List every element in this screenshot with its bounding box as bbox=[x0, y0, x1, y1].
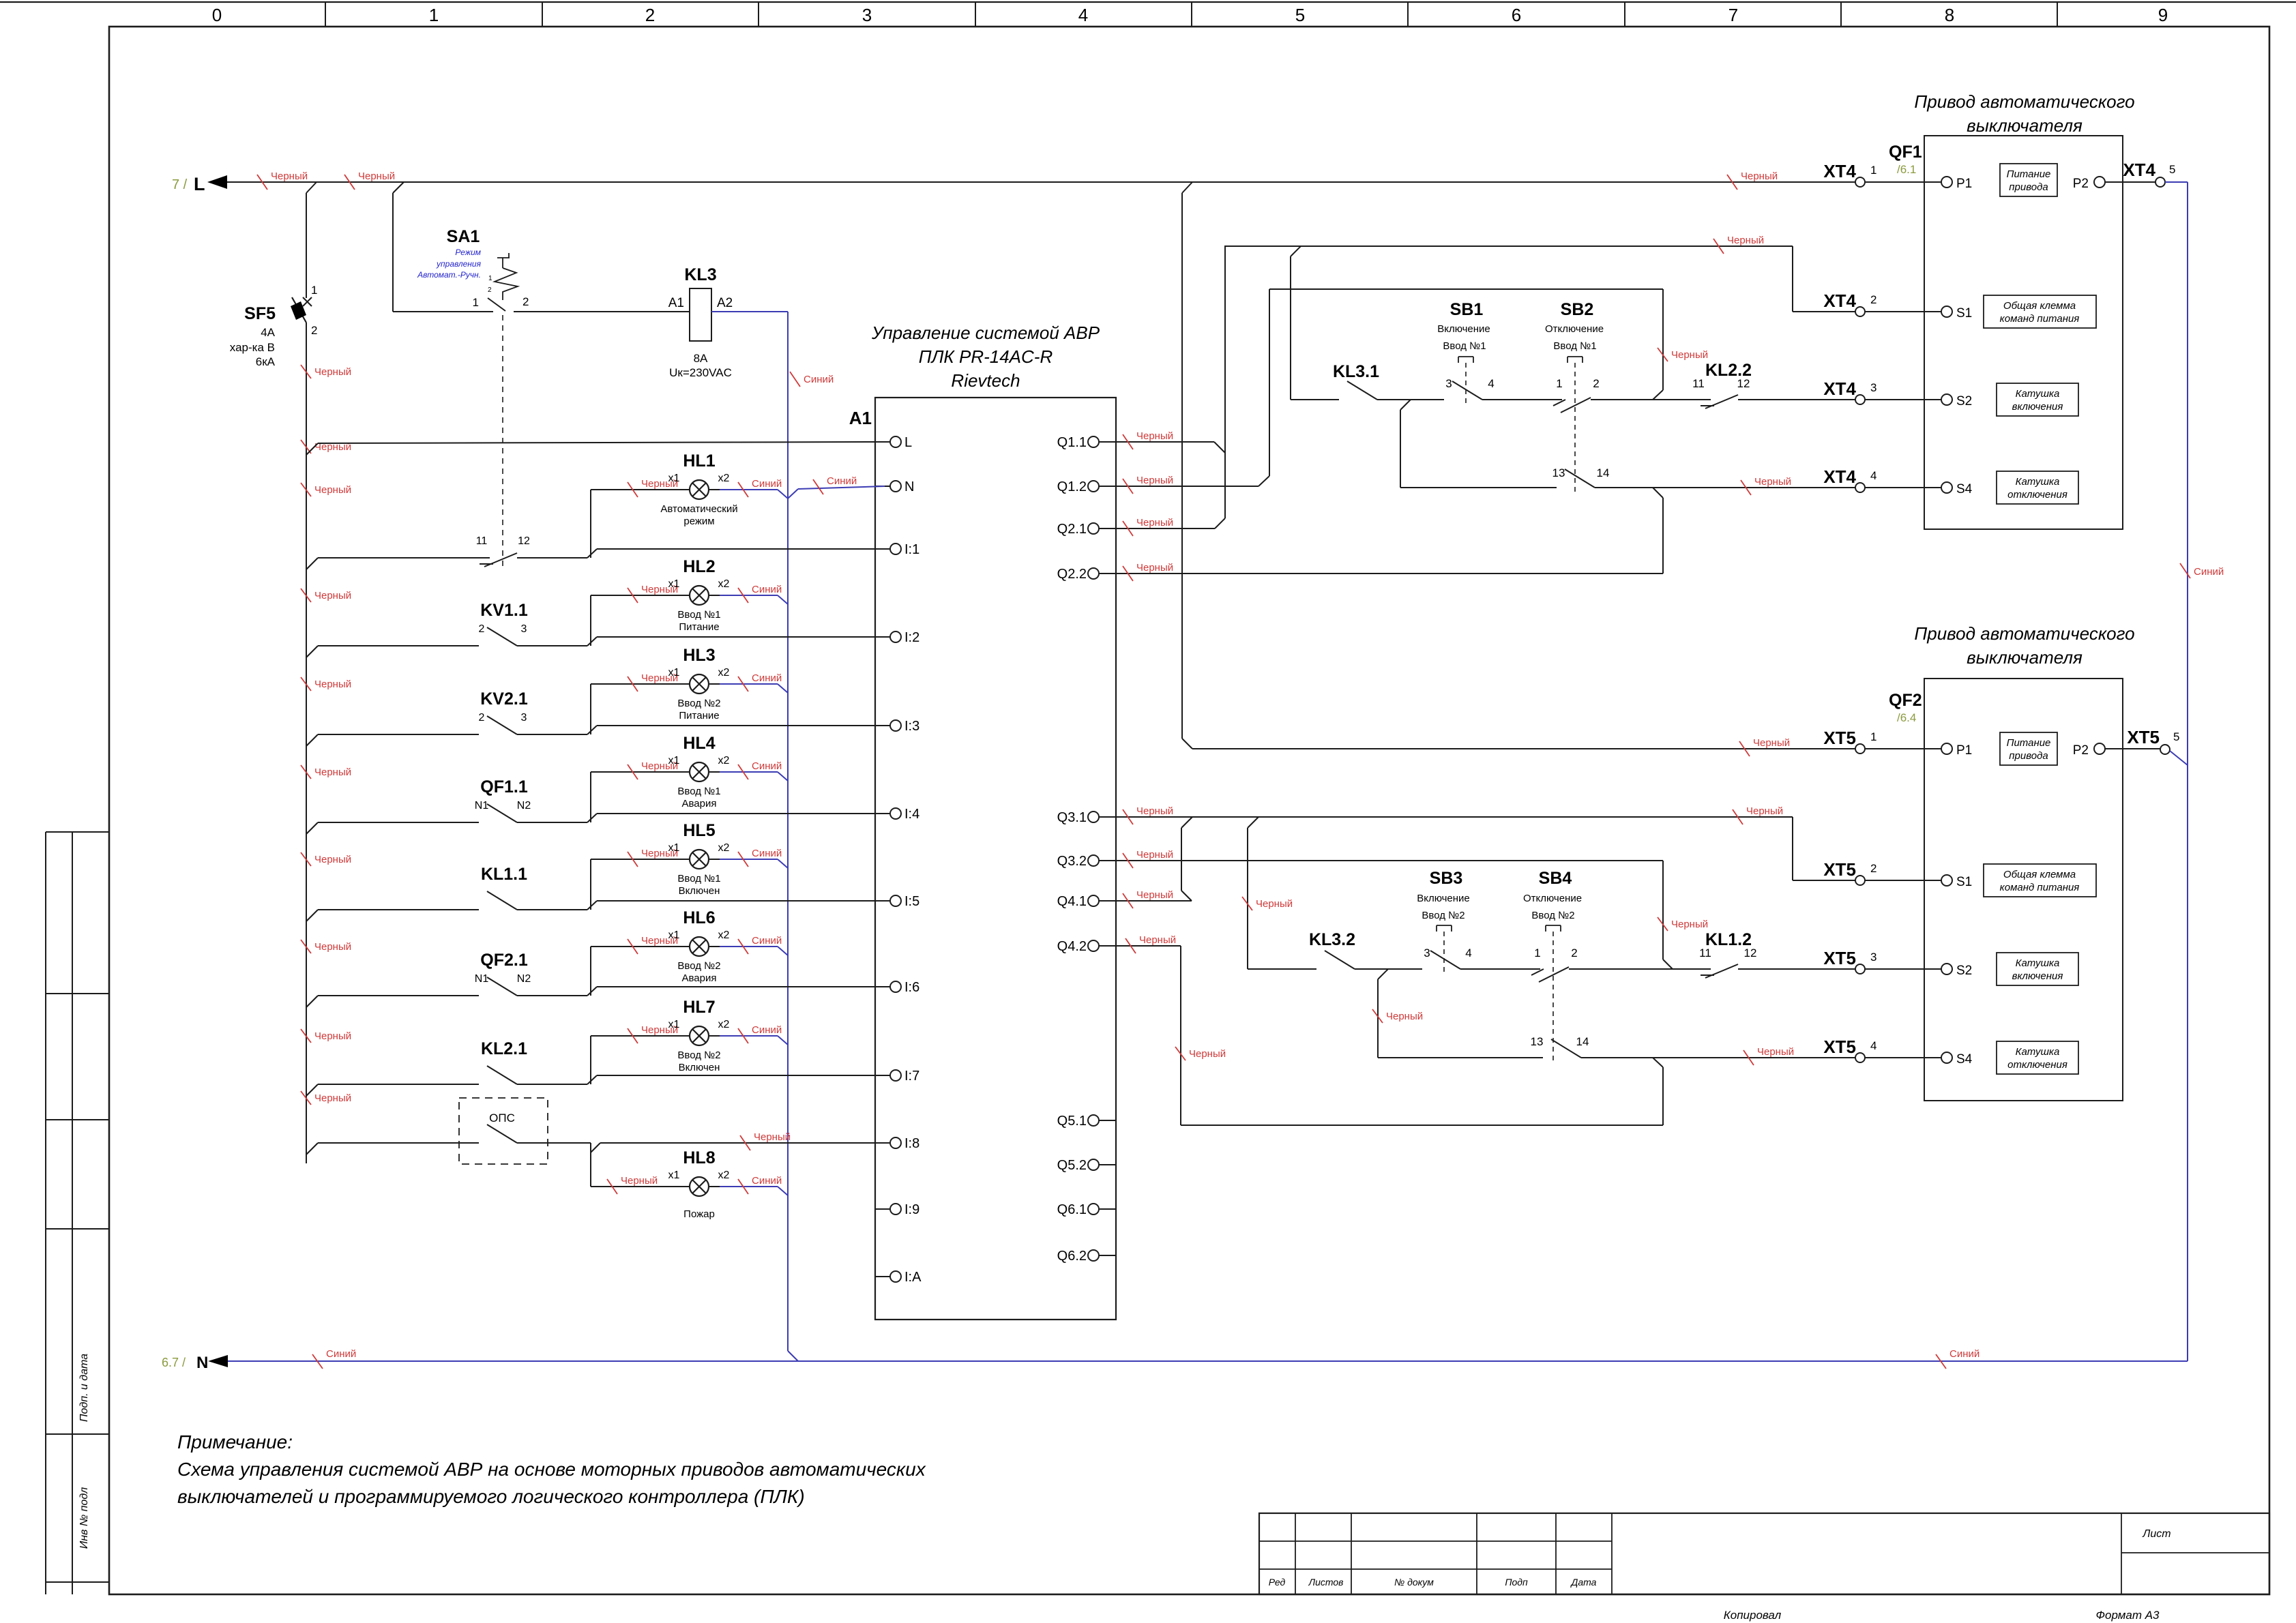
svg-text:Черный: Черный bbox=[1136, 889, 1173, 901]
wire label bbox=[628, 852, 638, 867]
wire KL3 A2 to N riser (blue) bbox=[711, 311, 788, 312]
svg-text:Синий: Синий bbox=[804, 374, 834, 385]
wire row 8 left segment bbox=[318, 1142, 479, 1144]
svg-text:Q3.1: Q3.1 bbox=[1057, 810, 1087, 825]
svg-text:HL1: HL1 bbox=[683, 451, 715, 471]
wire label bbox=[628, 939, 638, 954]
pin I:1 bbox=[875, 548, 890, 550]
svg-text:Черный: Черный bbox=[1189, 1048, 1226, 1060]
svg-text:KV1.1: KV1.1 bbox=[480, 601, 528, 620]
svg-text:S2: S2 bbox=[1956, 964, 1972, 978]
wire label on bus bbox=[301, 852, 311, 866]
svg-text:12: 12 bbox=[1744, 947, 1757, 959]
wire label bbox=[607, 1179, 617, 1194]
wire label bbox=[1123, 521, 1133, 536]
node drop to chain dogleg bbox=[1653, 390, 1663, 400]
svg-text:Ввод №2: Ввод №2 bbox=[1531, 910, 1574, 921]
pin I:2 bbox=[875, 636, 890, 638]
svg-text:Черный: Черный bbox=[754, 1131, 791, 1143]
svg-text:Схема управления системой АВР: Схема управления системой АВР на основе … bbox=[177, 1459, 926, 1480]
wire label on bus bbox=[301, 940, 311, 953]
wire row 1 right segment bbox=[517, 557, 587, 559]
wire aux row to XT5-4 bbox=[1581, 1057, 1855, 1058]
svg-text:команд питания: команд питания bbox=[2000, 313, 2080, 325]
svg-text:S2: S2 bbox=[1956, 394, 1972, 408]
node L to SF5 dogleg bbox=[306, 182, 317, 193]
svg-text:1: 1 bbox=[1870, 164, 1876, 177]
wire aux row to XT4-4 bbox=[1595, 487, 1855, 488]
node L drop to XT5-1 dogleg bbox=[1182, 739, 1192, 749]
wire XT4:5 to right riser (blue) bbox=[2165, 181, 2188, 183]
pin Q1.2 bbox=[1088, 481, 1099, 492]
wire label bbox=[1727, 175, 1737, 190]
svg-text:2: 2 bbox=[1870, 293, 1876, 306]
svg-text:7 /: 7 / bbox=[172, 177, 188, 192]
svg-text:XT5: XT5 bbox=[2127, 727, 2160, 747]
wire to XT5-1 bbox=[1192, 748, 1855, 749]
svg-text:1: 1 bbox=[1534, 947, 1540, 959]
box Катушка включения bbox=[1997, 953, 2078, 985]
wire lamp HL5 to N riser (blue) bbox=[720, 859, 778, 860]
wire row 5 left segment bbox=[318, 909, 479, 910]
wire row 4 left segment bbox=[318, 822, 479, 823]
svg-text:3: 3 bbox=[1870, 381, 1876, 394]
svg-text:HL2: HL2 bbox=[683, 557, 715, 576]
wire label on bus bbox=[301, 589, 311, 602]
svg-text:Синий: Синий bbox=[752, 672, 782, 684]
wire label bbox=[738, 852, 748, 867]
svg-text:Rievtech: Rievtech bbox=[951, 370, 1020, 391]
svg-text:Ред: Ред bbox=[1269, 1577, 1286, 1588]
svg-text:P2: P2 bbox=[2073, 177, 2089, 191]
wire lamp branch row 4 bbox=[590, 772, 591, 822]
svg-text:A2: A2 bbox=[717, 296, 733, 310]
wire bus branch row 4 dogleg bbox=[306, 822, 318, 834]
svg-text:1: 1 bbox=[1556, 377, 1562, 390]
svg-text:Отключение: Отключение bbox=[1523, 893, 1582, 904]
node Q1.1 to riser dogleg bbox=[1214, 442, 1225, 453]
wire right N riser (blue) bbox=[2187, 182, 2188, 1361]
svg-text:Режим: Режим bbox=[455, 248, 481, 257]
wire chain segment bbox=[1569, 968, 1711, 970]
svg-text:2: 2 bbox=[1593, 377, 1599, 390]
svg-text:I:3: I:3 bbox=[904, 719, 919, 734]
svg-text:I:5: I:5 bbox=[904, 894, 919, 909]
pin Q6.1 bbox=[1088, 1204, 1099, 1215]
wire label bbox=[1658, 348, 1668, 361]
svg-text:ПЛК PR-14AC-R: ПЛК PR-14AC-R bbox=[919, 346, 1053, 367]
svg-text:Подп: Подп bbox=[1505, 1577, 1528, 1588]
svg-text:Черный: Черный bbox=[314, 484, 351, 496]
svg-text:9: 9 bbox=[2158, 5, 2168, 25]
wire lamp branch row 1 bbox=[590, 490, 591, 558]
svg-text:2: 2 bbox=[488, 286, 492, 294]
wire Q1.1/Q2.1 common riser bbox=[1224, 246, 1226, 518]
svg-text:N1: N1 bbox=[475, 800, 489, 811]
wire lamp branch row 6 bbox=[590, 947, 591, 996]
svg-text:x1: x1 bbox=[668, 473, 680, 484]
svg-text:Q3.2: Q3.2 bbox=[1057, 854, 1087, 869]
svg-text:Черный: Черный bbox=[358, 170, 395, 182]
svg-text:Питание: Питание bbox=[2007, 168, 2051, 180]
svg-text:привода: привода bbox=[2009, 181, 2048, 193]
svg-text:Q5.1: Q5.1 bbox=[1057, 1114, 1087, 1129]
svg-text:Черный: Черный bbox=[1671, 919, 1708, 930]
svg-text:12: 12 bbox=[518, 535, 530, 547]
wire label bbox=[1123, 893, 1133, 908]
fire alarm contact box ОПС bbox=[459, 1098, 548, 1164]
wire lamp HL2 to N riser (blue) bbox=[720, 595, 778, 596]
svg-text:режим: режим bbox=[683, 516, 714, 527]
svg-text:Черный: Черный bbox=[1136, 849, 1173, 861]
svg-text:x2: x2 bbox=[718, 929, 730, 941]
pin Q1.1 bbox=[1088, 436, 1099, 447]
svg-text:KL3.1: KL3.1 bbox=[1333, 362, 1379, 381]
pin I:8 bbox=[875, 1142, 890, 1144]
svg-text:SB3: SB3 bbox=[1430, 869, 1463, 888]
wire row 4 right segment bbox=[517, 822, 587, 823]
svg-text:Ввод №1: Ввод №1 bbox=[1553, 340, 1596, 352]
box Катушка отключения bbox=[1997, 1041, 2078, 1074]
node chain to aux drop dogleg bbox=[1378, 969, 1388, 979]
wire label bbox=[1372, 1009, 1383, 1023]
svg-text:Q4.2: Q4.2 bbox=[1057, 939, 1087, 954]
svg-text:HL6: HL6 bbox=[683, 908, 715, 927]
svg-text:привода: привода bbox=[2009, 750, 2048, 762]
svg-text:№ докум: № докум bbox=[1394, 1577, 1434, 1588]
svg-text:XT5: XT5 bbox=[1823, 948, 1856, 968]
pin S2 bbox=[1941, 964, 1952, 974]
svg-text:1: 1 bbox=[1870, 730, 1876, 743]
wire Q4.2 bottom run bbox=[1181, 1125, 1663, 1126]
svg-text:2: 2 bbox=[1571, 947, 1577, 959]
wire label bbox=[1123, 853, 1133, 868]
svg-text:Черный: Черный bbox=[1754, 476, 1791, 488]
svg-text:2: 2 bbox=[479, 712, 485, 724]
svg-text:Включение: Включение bbox=[1437, 323, 1490, 335]
svg-text:Ввод №2: Ввод №2 bbox=[677, 1049, 720, 1061]
svg-text:Синий: Синий bbox=[752, 1024, 782, 1036]
title block bbox=[1259, 1513, 2269, 1594]
svg-text:Привод автоматического: Привод автоматического bbox=[1914, 623, 2134, 644]
wire label bbox=[1125, 938, 1136, 953]
pin Q4.1 bbox=[1088, 895, 1099, 906]
svg-text:P1: P1 bbox=[1956, 177, 1972, 191]
svg-text:12: 12 bbox=[1737, 377, 1750, 390]
svg-text:Синий: Синий bbox=[752, 848, 782, 859]
wire bus branch row 7 dogleg bbox=[306, 1084, 318, 1096]
wire label bbox=[628, 1028, 638, 1043]
wire Q3.1 output bbox=[1116, 816, 1793, 818]
svg-text:2: 2 bbox=[1870, 862, 1876, 875]
svg-text:/6.4: /6.4 bbox=[1897, 711, 1916, 724]
svg-text:N2: N2 bbox=[517, 973, 531, 985]
wire Q3.1/Q4.1 common riser bbox=[1181, 828, 1182, 891]
wire chain segment bbox=[1355, 968, 1422, 970]
svg-text:Ввод №1: Ввод №1 bbox=[677, 609, 720, 621]
wire XT5:5 to right riser (blue) bbox=[2170, 751, 2188, 765]
svg-text:Q1.2: Q1.2 bbox=[1057, 479, 1087, 494]
svg-text:I:4: I:4 bbox=[904, 807, 919, 822]
svg-text:Катушка: Катушка bbox=[2016, 957, 2060, 969]
svg-text:Листов: Листов bbox=[1308, 1577, 1344, 1588]
svg-text:3: 3 bbox=[521, 712, 527, 724]
svg-text:включения: включения bbox=[2012, 401, 2063, 413]
svg-text:Черный: Черный bbox=[1136, 562, 1173, 574]
svg-text:Синий: Синий bbox=[752, 760, 782, 772]
svg-text:Синий: Синий bbox=[1949, 1348, 1979, 1360]
svg-text:Синий: Синий bbox=[2194, 566, 2224, 578]
svg-text:Привод автоматического: Привод автоматического bbox=[1914, 91, 2134, 112]
svg-text:I:8: I:8 bbox=[904, 1136, 919, 1151]
svg-text:управления: управления bbox=[436, 259, 482, 269]
wire chain to XT5-3 bbox=[1738, 968, 1855, 970]
wire Q1.2 top run bbox=[1269, 288, 1663, 290]
svg-text:HL5: HL5 bbox=[683, 821, 715, 840]
wire label bbox=[738, 482, 748, 497]
wire bus branch row 1 dogleg bbox=[306, 558, 318, 569]
svg-text:13: 13 bbox=[1552, 466, 1565, 479]
wire label on bus bbox=[301, 677, 311, 691]
svg-text:I:9: I:9 bbox=[904, 1202, 919, 1217]
wire label bbox=[257, 175, 267, 190]
svg-text:Примечание:: Примечание: bbox=[177, 1431, 293, 1453]
svg-text:I:7: I:7 bbox=[904, 1069, 919, 1084]
wire Q3.2 output bbox=[1116, 860, 1663, 861]
pin Q3.2 bbox=[1088, 855, 1099, 866]
svg-text:Общая клемма: Общая клемма bbox=[2003, 300, 2076, 312]
svg-text:QF1.1: QF1.1 bbox=[480, 777, 528, 796]
svg-text:Q2.2: Q2.2 bbox=[1057, 567, 1087, 582]
wire HL1 x2 to PLC N pin (blue) bbox=[788, 489, 798, 498]
box Катушка отключения bbox=[1997, 471, 2078, 504]
svg-text:x2: x2 bbox=[718, 578, 730, 590]
svg-text:14: 14 bbox=[1597, 466, 1610, 479]
left attachment column bbox=[45, 832, 46, 1594]
svg-text:Синий: Синий bbox=[752, 1175, 782, 1187]
wire label on bus bbox=[301, 1029, 311, 1043]
wire Q3.2 drop to chain bbox=[1662, 861, 1664, 959]
svg-text:I:A: I:A bbox=[904, 1270, 922, 1285]
svg-text:Черный: Черный bbox=[1741, 170, 1778, 182]
svg-text:Черный: Черный bbox=[1139, 934, 1176, 946]
svg-text:Q6.2: Q6.2 bbox=[1057, 1249, 1087, 1264]
svg-text:Черный: Черный bbox=[1746, 805, 1783, 817]
box Катушка включения bbox=[1997, 383, 2078, 416]
svg-text:x1: x1 bbox=[668, 842, 680, 854]
svg-text:включения: включения bbox=[2012, 970, 2063, 982]
svg-text:L: L bbox=[194, 174, 205, 194]
svg-text:I:1: I:1 bbox=[904, 542, 919, 557]
wire label on bus bbox=[301, 765, 311, 779]
box Питание привода bbox=[2000, 164, 2057, 196]
svg-text:Синий: Синий bbox=[326, 1348, 356, 1360]
node riser to N rail dogleg bbox=[788, 1351, 798, 1361]
svg-text:KL2.1: KL2.1 bbox=[481, 1039, 527, 1058]
svg-text:Q2.1: Q2.1 bbox=[1057, 522, 1087, 537]
svg-text:Катушка: Катушка bbox=[2016, 388, 2060, 400]
wire lamp branch row 3 bbox=[590, 684, 591, 734]
svg-text:0: 0 bbox=[212, 5, 222, 25]
svg-text:команд питания: команд питания bbox=[2000, 882, 2080, 893]
svg-text:Черный: Черный bbox=[1136, 517, 1173, 528]
wire KL3.1 chain segment bbox=[1291, 399, 1339, 400]
svg-text:Катушка: Катушка bbox=[2016, 476, 2060, 488]
wire bus branch row 2 dogleg bbox=[306, 646, 318, 657]
node aux row dogleg bbox=[1653, 488, 1663, 498]
svg-text:Лист: Лист bbox=[2142, 1528, 2170, 1540]
svg-text:x1: x1 bbox=[668, 755, 680, 766]
wire label bbox=[301, 440, 311, 453]
pin P1 bbox=[1941, 177, 1952, 188]
wire chain segment bbox=[1591, 399, 1711, 400]
svg-text:Черный: Черный bbox=[1671, 349, 1708, 361]
wire QF2 feed from L rail bbox=[1181, 193, 1183, 739]
wire label bbox=[1936, 1354, 1946, 1369]
svg-text:8А: 8А bbox=[694, 352, 708, 365]
wire label bbox=[344, 175, 355, 190]
svg-text:Питание: Питание bbox=[679, 710, 719, 721]
wire lamp branch HL8 bbox=[590, 1143, 591, 1187]
wire common feed corner down bbox=[1792, 246, 1793, 312]
contact ОПС bbox=[487, 1125, 517, 1143]
svg-text:11: 11 bbox=[1699, 947, 1711, 959]
node riser to Q2.1 dogleg bbox=[1215, 518, 1225, 528]
svg-text:Черный: Черный bbox=[1136, 805, 1173, 817]
svg-text:3: 3 bbox=[1870, 951, 1876, 964]
svg-text:4: 4 bbox=[1870, 1039, 1876, 1052]
svg-text:XT5: XT5 bbox=[1823, 859, 1856, 880]
svg-text:P1: P1 bbox=[1956, 743, 1972, 758]
wire label bbox=[738, 588, 748, 603]
node Q3.1 to KL3.2 drop dogleg bbox=[1248, 817, 1259, 828]
wire branch down to KL3.1 bbox=[1290, 256, 1291, 400]
svg-text:Черный: Черный bbox=[1757, 1046, 1794, 1058]
svg-text:QF1: QF1 bbox=[1889, 143, 1922, 162]
svg-text:Включен: Включен bbox=[679, 1062, 720, 1073]
svg-text:Ввод №1: Ввод №1 bbox=[1443, 340, 1486, 352]
svg-text:Ввод №1: Ввод №1 bbox=[677, 873, 720, 884]
wire Q1.1 output bbox=[1116, 441, 1214, 443]
svg-text:Q1.1: Q1.1 bbox=[1057, 435, 1087, 450]
svg-text:SA1: SA1 bbox=[447, 227, 480, 246]
svg-text:x2: x2 bbox=[718, 755, 730, 766]
node riser to Q4.1 dogleg bbox=[1181, 891, 1192, 901]
svg-text:Авария: Авария bbox=[682, 972, 717, 984]
box Питание привода bbox=[2000, 732, 2057, 765]
svg-text:7: 7 bbox=[1728, 5, 1738, 25]
svg-text:N: N bbox=[196, 1354, 208, 1372]
svg-text:ОПС: ОПС bbox=[489, 1112, 515, 1125]
wire label bbox=[738, 764, 748, 779]
svg-text:4: 4 bbox=[1465, 947, 1471, 959]
wire bus branch row 5 dogleg bbox=[306, 910, 318, 921]
svg-text:XT5: XT5 bbox=[1823, 728, 1856, 748]
pin Q4.2 bbox=[1088, 940, 1099, 951]
wire lamp branch row 7 bbox=[590, 1036, 591, 1084]
wire Q2.2 riser to aux row bbox=[1662, 498, 1664, 574]
wire label bbox=[1175, 1047, 1186, 1060]
wire L rail bbox=[227, 181, 1855, 183]
wire label bbox=[738, 939, 748, 954]
wire label bbox=[628, 764, 638, 779]
wire label bbox=[628, 482, 638, 497]
svg-text:6кА: 6кА bbox=[256, 355, 276, 368]
drawing sheet top ruler bbox=[0, 1, 2296, 3]
svg-text:Ввод №2: Ввод №2 bbox=[677, 698, 720, 709]
switch SA1 mechanical link dashed bbox=[502, 315, 503, 566]
svg-text:Авария: Авария bbox=[682, 798, 717, 809]
pin I:6 bbox=[875, 986, 890, 987]
wire label bbox=[790, 372, 800, 387]
wire label bbox=[1658, 917, 1668, 931]
svg-text:x1: x1 bbox=[668, 578, 680, 590]
node L to SA1 dogleg bbox=[393, 182, 404, 193]
wire chain segment bbox=[1460, 968, 1540, 970]
wire Q2.1 output bbox=[1116, 528, 1215, 529]
wire label bbox=[628, 588, 638, 603]
wire row 6 right segment bbox=[517, 995, 587, 996]
svg-text:KV2.1: KV2.1 bbox=[480, 689, 528, 709]
svg-text:x1: x1 bbox=[668, 1170, 680, 1181]
wire label bbox=[312, 1354, 323, 1369]
wire bus branch row 3 dogleg bbox=[306, 734, 318, 746]
wire label bbox=[1739, 741, 1750, 756]
svg-text:XT4: XT4 bbox=[1823, 378, 1856, 399]
svg-text:4: 4 bbox=[1078, 5, 1088, 25]
pin S1 bbox=[1941, 875, 1952, 886]
svg-text:Синий: Синий bbox=[752, 478, 782, 490]
svg-text:Черный: Черный bbox=[1136, 430, 1173, 442]
svg-text:x1: x1 bbox=[668, 667, 680, 679]
svg-text:выключателя: выключателя bbox=[1967, 647, 2082, 668]
svg-text:XT4: XT4 bbox=[1823, 291, 1856, 311]
wire lamp HL8 to N riser (blue) bbox=[720, 1186, 778, 1187]
svg-text:Черный: Черный bbox=[1256, 898, 1293, 910]
wire row 2 right segment bbox=[517, 645, 587, 646]
svg-text:XT4: XT4 bbox=[1823, 161, 1856, 181]
wire label bbox=[813, 479, 823, 494]
wire chain segment bbox=[1482, 399, 1562, 400]
svg-text:Uк=230VAC: Uк=230VAC bbox=[669, 366, 732, 379]
svg-text:выключателя: выключателя bbox=[1967, 115, 2082, 136]
svg-text:Черный: Черный bbox=[314, 941, 351, 953]
svg-text:Q6.1: Q6.1 bbox=[1057, 1202, 1087, 1217]
svg-text:Катушка: Катушка bbox=[2016, 1046, 2060, 1058]
svg-text:13: 13 bbox=[1531, 1035, 1544, 1048]
wire label bbox=[1743, 1050, 1754, 1065]
pin Q5.2 bbox=[1088, 1159, 1099, 1170]
wire label bbox=[1733, 809, 1743, 824]
switch SA1 bbox=[392, 193, 394, 312]
svg-text:SF5: SF5 bbox=[244, 304, 276, 323]
svg-text:Отключение: Отключение bbox=[1545, 323, 1604, 335]
wire label bbox=[1713, 239, 1724, 254]
wire Q4.1 output bbox=[1116, 900, 1192, 902]
svg-text:Ввод №2: Ввод №2 bbox=[677, 960, 720, 972]
svg-text:XT4: XT4 bbox=[2123, 160, 2155, 180]
svg-text:Черный: Черный bbox=[621, 1175, 658, 1187]
wire label bbox=[1123, 809, 1133, 824]
pin I:5 bbox=[875, 900, 890, 902]
svg-text:HL3: HL3 bbox=[683, 646, 715, 665]
svg-text:2: 2 bbox=[645, 5, 655, 25]
wire label on bus bbox=[301, 483, 311, 496]
pin S4 bbox=[1941, 482, 1952, 493]
wire lamp HL1 to N riser (blue) bbox=[720, 489, 778, 490]
node aux row dogleg bbox=[1653, 1058, 1663, 1067]
svg-text:x1: x1 bbox=[668, 929, 680, 941]
